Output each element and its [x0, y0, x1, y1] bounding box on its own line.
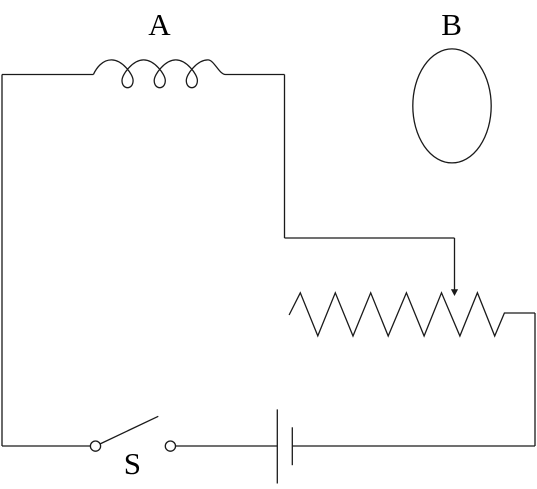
- svg-text:S: S: [124, 446, 141, 481]
- switch right terminal circle: [165, 441, 175, 451]
- wire: vertical drop at x=284.5: [284, 75, 286, 239]
- battery long plate: [276, 409, 278, 483]
- wire: inductor to top-right corner: [226, 74, 285, 76]
- switch left terminal circle: [90, 441, 100, 451]
- rheostat wiper arrow shaft: [454, 238, 456, 290]
- svg-text:A: A: [148, 7, 171, 42]
- rheostat arrow head: [451, 289, 458, 296]
- battery short plate: [291, 427, 293, 465]
- wire: battery to switch right terminal: [176, 445, 278, 447]
- secondary coil B (ellipse ring): [413, 49, 491, 163]
- wire: left vertical side: [1, 75, 3, 447]
- wire: right vertical side: [534, 313, 536, 446]
- svg-text:B: B: [441, 7, 462, 42]
- wire: bottom from right corner to battery short plate: [292, 445, 535, 447]
- inductor A (primary coil): [93, 60, 225, 88]
- wire: bottom-left to switch: [2, 445, 90, 447]
- rheostat R zigzag body: [289, 293, 535, 336]
- switch S blade: [100, 416, 158, 444]
- wire: top-left horizontal to inductor: [2, 74, 93, 76]
- wire: horizontal run to wiper: [285, 237, 455, 239]
